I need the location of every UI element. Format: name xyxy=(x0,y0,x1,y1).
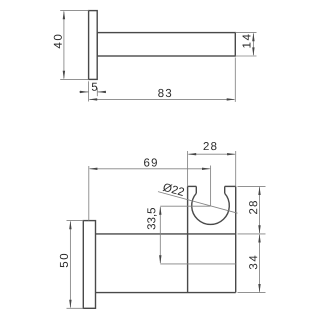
arrow 50 top xyxy=(69,221,71,230)
arrow 83 left xyxy=(89,98,98,100)
arrow 5 left xyxy=(80,91,89,93)
extension line 33,5 top (at clip centre height) xyxy=(160,205,210,207)
inner horizontal line 33,5 level xyxy=(160,263,235,265)
leader line Ø22 xyxy=(158,192,238,214)
arrow 14 bottom xyxy=(252,47,254,56)
arrow 14 top xyxy=(252,33,254,42)
arm (top view) xyxy=(97,33,235,56)
dimension line 5 (outside arrows) xyxy=(79,91,106,93)
dimension line 14 xyxy=(252,34,254,56)
arrow 33,5 bottom xyxy=(159,255,161,264)
arrow 28v top xyxy=(258,186,260,195)
wall plate (top view) xyxy=(89,11,98,80)
label 50 xyxy=(60,254,68,267)
arrow 69 right xyxy=(202,168,211,170)
clip left lip xyxy=(195,186,197,193)
arrow 33,5 top xyxy=(159,206,161,215)
dimension line 40 xyxy=(63,12,65,79)
dimension line 50 xyxy=(69,222,71,308)
label 28 vertical xyxy=(249,201,257,214)
dimension line 83 xyxy=(90,98,235,100)
arrow 40 bottom xyxy=(63,71,65,80)
arrow 34 top xyxy=(258,234,260,243)
extension lines for dimension 50 xyxy=(67,221,84,309)
arrow 28h left xyxy=(188,153,197,155)
label 5 xyxy=(92,83,97,91)
label 69 xyxy=(144,158,157,166)
extension line below arm right end (for 83) xyxy=(234,58,236,102)
label 34 xyxy=(249,256,257,270)
arrow 28v bottom xyxy=(258,225,260,234)
arrow 69 left xyxy=(89,168,98,170)
label 14 xyxy=(243,34,251,47)
arrow 28h right xyxy=(227,153,236,155)
arrow 50 bottom xyxy=(69,300,71,309)
extension line from top-view plate left down to front plate (for 69) xyxy=(88,166,90,221)
extension lines right of holder (for 28/34 vertical) xyxy=(238,186,266,292)
extension lines for dimension 14 xyxy=(235,33,256,56)
arrow 40 top xyxy=(63,11,65,20)
label Ø22 xyxy=(162,183,184,197)
holder right edge xyxy=(235,186,237,292)
holder top edge left segment xyxy=(188,185,197,187)
label 83 xyxy=(158,89,171,97)
dimension line 28 horizontal xyxy=(189,153,235,155)
label 33,5 xyxy=(147,208,157,229)
arrow 83 right xyxy=(227,98,236,100)
extension lines above holder (for 28 horizontal) xyxy=(188,151,236,186)
wall plate (front view) xyxy=(83,221,95,309)
arrow 34 bottom xyxy=(258,284,260,293)
arrow 5 right xyxy=(97,91,106,93)
extension line below plate left (shared by 5 and 83) xyxy=(88,81,90,101)
clip right lip xyxy=(224,186,226,193)
label 28 horizontal xyxy=(204,142,217,150)
clip circle arc (Ø22) xyxy=(192,193,230,224)
holder left edge xyxy=(187,186,189,292)
extension/centre line at clip centre (for 69) xyxy=(210,166,212,206)
dimension line 69 xyxy=(90,168,210,170)
extension line below plate right (for 5) xyxy=(96,88,98,96)
dimension line 33,5 xyxy=(159,207,161,263)
dimension line 34 xyxy=(259,235,261,292)
holder top edge right segment xyxy=(225,185,236,187)
dimension line 28 vertical xyxy=(259,187,261,233)
label 40 xyxy=(54,35,62,49)
extension lines for dimension 40 xyxy=(60,11,88,80)
arm top edge (front view) xyxy=(96,233,236,235)
bottom edge arm and holder (front view) xyxy=(96,292,236,294)
